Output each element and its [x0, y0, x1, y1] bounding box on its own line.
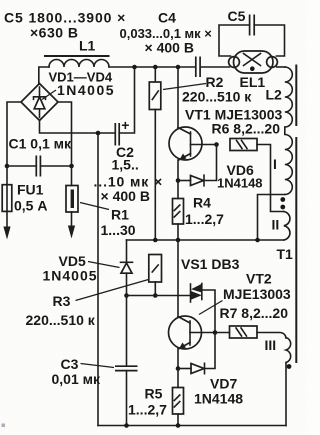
wire bridge bottom to C2 row	[40, 121, 115, 134]
wire diac to VT2 base	[202, 290, 215, 333]
wire R6 to winding II	[257, 145, 284, 212]
node bottom bus C3 junction	[124, 423, 129, 428]
diode VD5	[121, 240, 133, 296]
node top bus VT1 collector junction	[176, 65, 181, 70]
winding II of T1	[284, 212, 290, 241]
resistor R4	[173, 181, 184, 241]
wire minus bus vertical	[97, 133, 99, 426]
inductor L2	[285, 67, 293, 127]
wire top bus L1 to C4	[109, 66, 195, 68]
node VD5 C3 junction	[124, 293, 129, 298]
wire C1 row left	[7, 165, 36, 167]
scan speck left bottom	[2, 424, 6, 428]
diac VS1	[191, 284, 202, 303]
wire bridge right corner to C1 row	[58, 102, 72, 166]
capacitor C2	[115, 123, 119, 146]
wire winding I to midpoint bus	[258, 195, 285, 241]
resistor R2	[149, 67, 161, 110]
winding III phasing dot	[287, 364, 292, 369]
transistor VT1	[169, 127, 217, 161]
diode VD7	[178, 333, 215, 374]
wire VT2 collector	[177, 240, 179, 317]
winding I phasing dot	[280, 197, 285, 202]
wire bridge left corner to C1 row	[7, 102, 21, 166]
node VT2 base junction	[213, 330, 218, 335]
node C1 left junction	[5, 164, 10, 169]
node VT2 emitter junction	[176, 366, 181, 371]
lamp EL1	[229, 51, 278, 73]
wire bottom bus	[98, 425, 286, 427]
inductor L1	[49, 60, 109, 68]
capacitor C3	[115, 366, 138, 370]
winding II phasing dot	[280, 205, 285, 210]
wire lamp to L2	[277, 66, 285, 68]
bridge rectifier VD1-VD4	[21, 84, 58, 121]
wire C2 to top bus	[119, 67, 134, 133]
R1 label leader	[80, 203, 109, 210]
VD5 label leader	[88, 262, 120, 268]
node midpoint VT junction	[176, 238, 181, 243]
wire VT2 emitter down	[177, 349, 179, 369]
winding III of T1	[286, 338, 291, 363]
capacitor C1	[36, 156, 40, 177]
wire VT1 emitter down	[177, 160, 179, 181]
node bottom bus R5 junction	[176, 423, 181, 428]
node top bus C2 junction	[132, 65, 137, 70]
node C1 right junction	[69, 164, 74, 169]
capacitor C5	[250, 15, 255, 36]
resistor R6	[230, 139, 257, 151]
wire C5 loop left	[219, 25, 250, 56]
node top bus R2 junction	[153, 65, 158, 70]
R3 label leader	[76, 280, 149, 301]
resistor R3	[149, 255, 162, 296]
node R3 bottom junction	[153, 293, 158, 298]
node VT1 emitter junction	[176, 178, 181, 183]
bridge label leader	[42, 90, 56, 100]
wire winding III to bottom bus	[285, 363, 287, 426]
wire C3 column	[126, 296, 128, 367]
resistor R7	[215, 326, 257, 338]
T1 core	[295, 138, 297, 362]
capacitor C4	[196, 57, 200, 78]
fuse FU1	[2, 166, 12, 211]
wire C5 loop right	[254, 25, 284, 56]
mains terminal arrow left	[3, 211, 10, 239]
node C2 row minus-bus junction	[96, 131, 101, 136]
wire C3 to bottom bus	[126, 371, 128, 426]
wire midpoint bus	[127, 239, 284, 241]
wire R2 to midpoint bus	[154, 110, 156, 241]
C3 label leader	[81, 364, 115, 368]
scan noise overlay	[0, 0, 1, 1]
node midpoint R3 junction	[153, 238, 158, 243]
resistor R1	[66, 166, 78, 212]
R2 label leader	[163, 84, 206, 90]
wire VT1 collector	[177, 67, 179, 128]
mains terminal arrow right	[68, 212, 75, 239]
diode VD6	[178, 145, 217, 186]
VT2 label leader	[199, 301, 223, 315]
wire L1 left lead to bridge top	[39, 67, 49, 84]
node VT1 base junction	[214, 142, 219, 147]
wire R7 to winding III	[257, 332, 286, 338]
wire diac row	[127, 295, 191, 297]
resistor R5	[173, 369, 184, 426]
wire C4 to lamp	[201, 66, 230, 68]
transistor VT2	[169, 316, 216, 350]
winding I of T1	[285, 127, 293, 195]
node midpoint winding I junction	[255, 238, 260, 243]
wire C1 row right	[40, 165, 71, 167]
L2 core	[295, 66, 297, 126]
